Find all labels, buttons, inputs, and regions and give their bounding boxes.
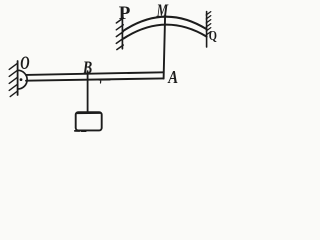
svg-text:Q: Q [209, 28, 217, 44]
svg-text:P: P [119, 3, 131, 24]
svg-text:B: B [82, 59, 92, 78]
svg-text:M: M [156, 1, 169, 21]
svg-text:A: A [167, 67, 178, 88]
svg-text:O: O [20, 53, 30, 74]
